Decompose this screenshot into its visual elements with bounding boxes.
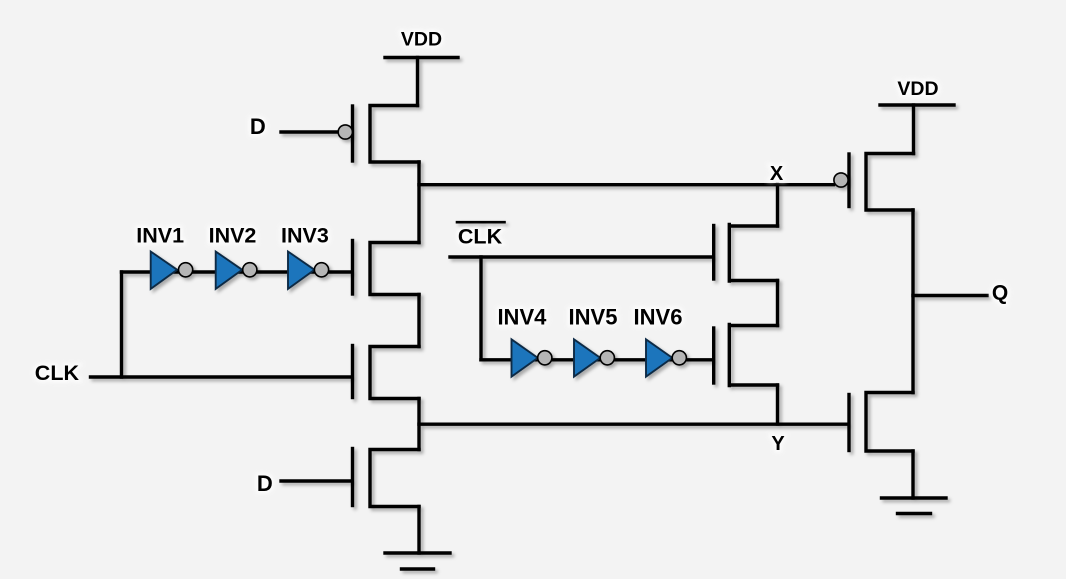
wire M4 source to ground — [417, 507, 420, 554]
power VDD1 rail bar — [385, 56, 458, 59]
label INV6 — [634, 305, 683, 330]
svg-text:Q: Q — [992, 282, 1008, 305]
wire inverter chain INV4-INV6 to M6 gate — [481, 358, 712, 361]
svg-text:VDD: VDD — [401, 29, 442, 51]
label CLKbar — [458, 225, 503, 249]
nmos M5 channel (CLKbar-gated, middle upper) — [729, 225, 777, 282]
nmos M3 channel (CLK-gated, left stack) — [370, 347, 419, 399]
nmos M6 channel (INV6-gated, middle lower) — [729, 325, 777, 386]
svg-text:INV2: INV2 — [209, 224, 257, 248]
pmos M1 channel (D-gated PMOS, left stack top) — [370, 106, 419, 163]
ground GND1 — [385, 553, 450, 569]
nmos M4 gate bar — [351, 449, 354, 506]
wire output Q — [913, 294, 987, 297]
wire node X down to M5 drain — [776, 185, 779, 227]
wire CLKbar branch down — [479, 257, 482, 360]
net CLKbar overline — [457, 221, 505, 224]
inverter INV3 triangle — [288, 252, 315, 289]
wire CLKbar to M5 gate — [450, 255, 712, 258]
power VDD2 rail bar — [880, 103, 954, 106]
label VDD1 — [401, 29, 442, 51]
label node X — [770, 163, 784, 185]
wire CLK input — [91, 375, 351, 378]
wire VDD1 to M1 drain — [416, 58, 419, 106]
label INV4 — [497, 305, 547, 330]
inverter INV5 triangle — [574, 339, 600, 376]
svg-text:D: D — [257, 471, 273, 496]
nmos M2 channel (INV3-gated, left stack) — [370, 243, 419, 295]
nmos M6 gate bar — [712, 328, 715, 383]
ground GND2 — [882, 498, 947, 514]
inverter INV2 bubble — [243, 263, 257, 277]
inverter INV1 bubble — [179, 263, 193, 277]
pmos M1 gate bubble — [338, 125, 352, 139]
inverter INV4 triangle — [512, 339, 538, 376]
nmos M2 gate bar — [351, 241, 354, 295]
svg-text:INV5: INV5 — [569, 305, 618, 330]
nmos M8 gate bar — [847, 395, 850, 451]
svg-text:INV4: INV4 — [497, 305, 547, 330]
wire M5 source to M6 drain — [776, 281, 779, 326]
inverter INV1 triangle — [151, 252, 178, 289]
wire node X horizontal — [419, 183, 834, 186]
wire D input to M4 gate — [281, 479, 351, 482]
svg-text:X: X — [770, 163, 784, 185]
label output Q — [992, 282, 1008, 305]
label VDD2 — [897, 78, 938, 100]
inverter INV6 bubble — [672, 351, 686, 365]
label D (bottom input) — [257, 471, 273, 496]
label CLK input — [35, 361, 80, 385]
label node Y — [771, 433, 785, 455]
label INV2 — [209, 224, 257, 248]
svg-text:INV3: INV3 — [281, 224, 329, 248]
pmos M7 channel (X-gated output PMOS) — [866, 154, 914, 211]
wire M1 source to M2 drain (node X rail) — [417, 162, 420, 243]
svg-text:INV6: INV6 — [634, 305, 683, 330]
inverter INV6 triangle — [646, 339, 672, 376]
wire M6 source down to node Y — [776, 385, 779, 424]
wire node Y horizontal — [419, 423, 848, 426]
label D (top input) — [250, 114, 266, 139]
nmos M8 channel (Y-gated output NMOS) — [866, 393, 913, 452]
svg-text:CLK: CLK — [35, 361, 80, 385]
wire M8 source to ground — [911, 451, 914, 498]
wire D input to M1 gate — [281, 130, 338, 133]
svg-text:CLK: CLK — [458, 225, 503, 249]
nmos M5 gate bar — [712, 226, 715, 280]
wire VDD2 to M7 source — [912, 105, 915, 154]
svg-text:INV1: INV1 — [136, 224, 184, 248]
svg-text:Y: Y — [771, 433, 785, 455]
nmos M3 gate bar — [351, 346, 354, 398]
svg-text:VDD: VDD — [897, 78, 938, 100]
pmos M1 gate bar — [351, 106, 354, 161]
wire M3 source to M4 drain (node Y rail) — [417, 399, 420, 450]
label INV5 — [569, 305, 618, 330]
svg-text:D: D — [250, 114, 266, 139]
wire CLK branch up to inverter chain — [120, 272, 123, 377]
inverter INV5 bubble — [600, 351, 614, 365]
label INV1 — [136, 224, 184, 248]
wire inverter chain INV1-INV3 to M2 gate — [122, 270, 351, 273]
pmos M7 gate bar — [847, 154, 850, 207]
wire M2 to M3 — [417, 295, 420, 347]
wire M7 drain to output node Q — [911, 210, 914, 393]
pmos M7 gate bubble — [834, 173, 848, 187]
inverter INV2 triangle — [216, 252, 243, 289]
inverter INV4 bubble — [538, 351, 552, 365]
label INV3 — [281, 224, 329, 248]
inverter INV3 bubble — [314, 263, 328, 277]
nmos M4 channel (D-gated NMOS, left stack bottom) — [370, 450, 419, 507]
